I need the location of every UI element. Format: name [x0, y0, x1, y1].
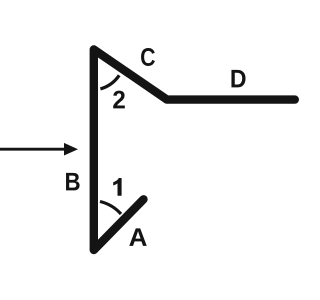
angle arc 2 (at top vertex) [100, 75, 119, 89]
label A [129, 228, 146, 246]
label 1 [113, 178, 121, 196]
label C [141, 48, 155, 66]
label B [66, 173, 80, 191]
angle arc 1 (at bottom vertex) [100, 202, 121, 215]
label 2 [113, 91, 125, 109]
wire: main polyline (segment A up to vertex 1, line B, segment C, segment D) [94, 50, 295, 251]
arrow (horizontal, pointing right at line B) [0, 143, 78, 156]
label D [231, 70, 245, 88]
